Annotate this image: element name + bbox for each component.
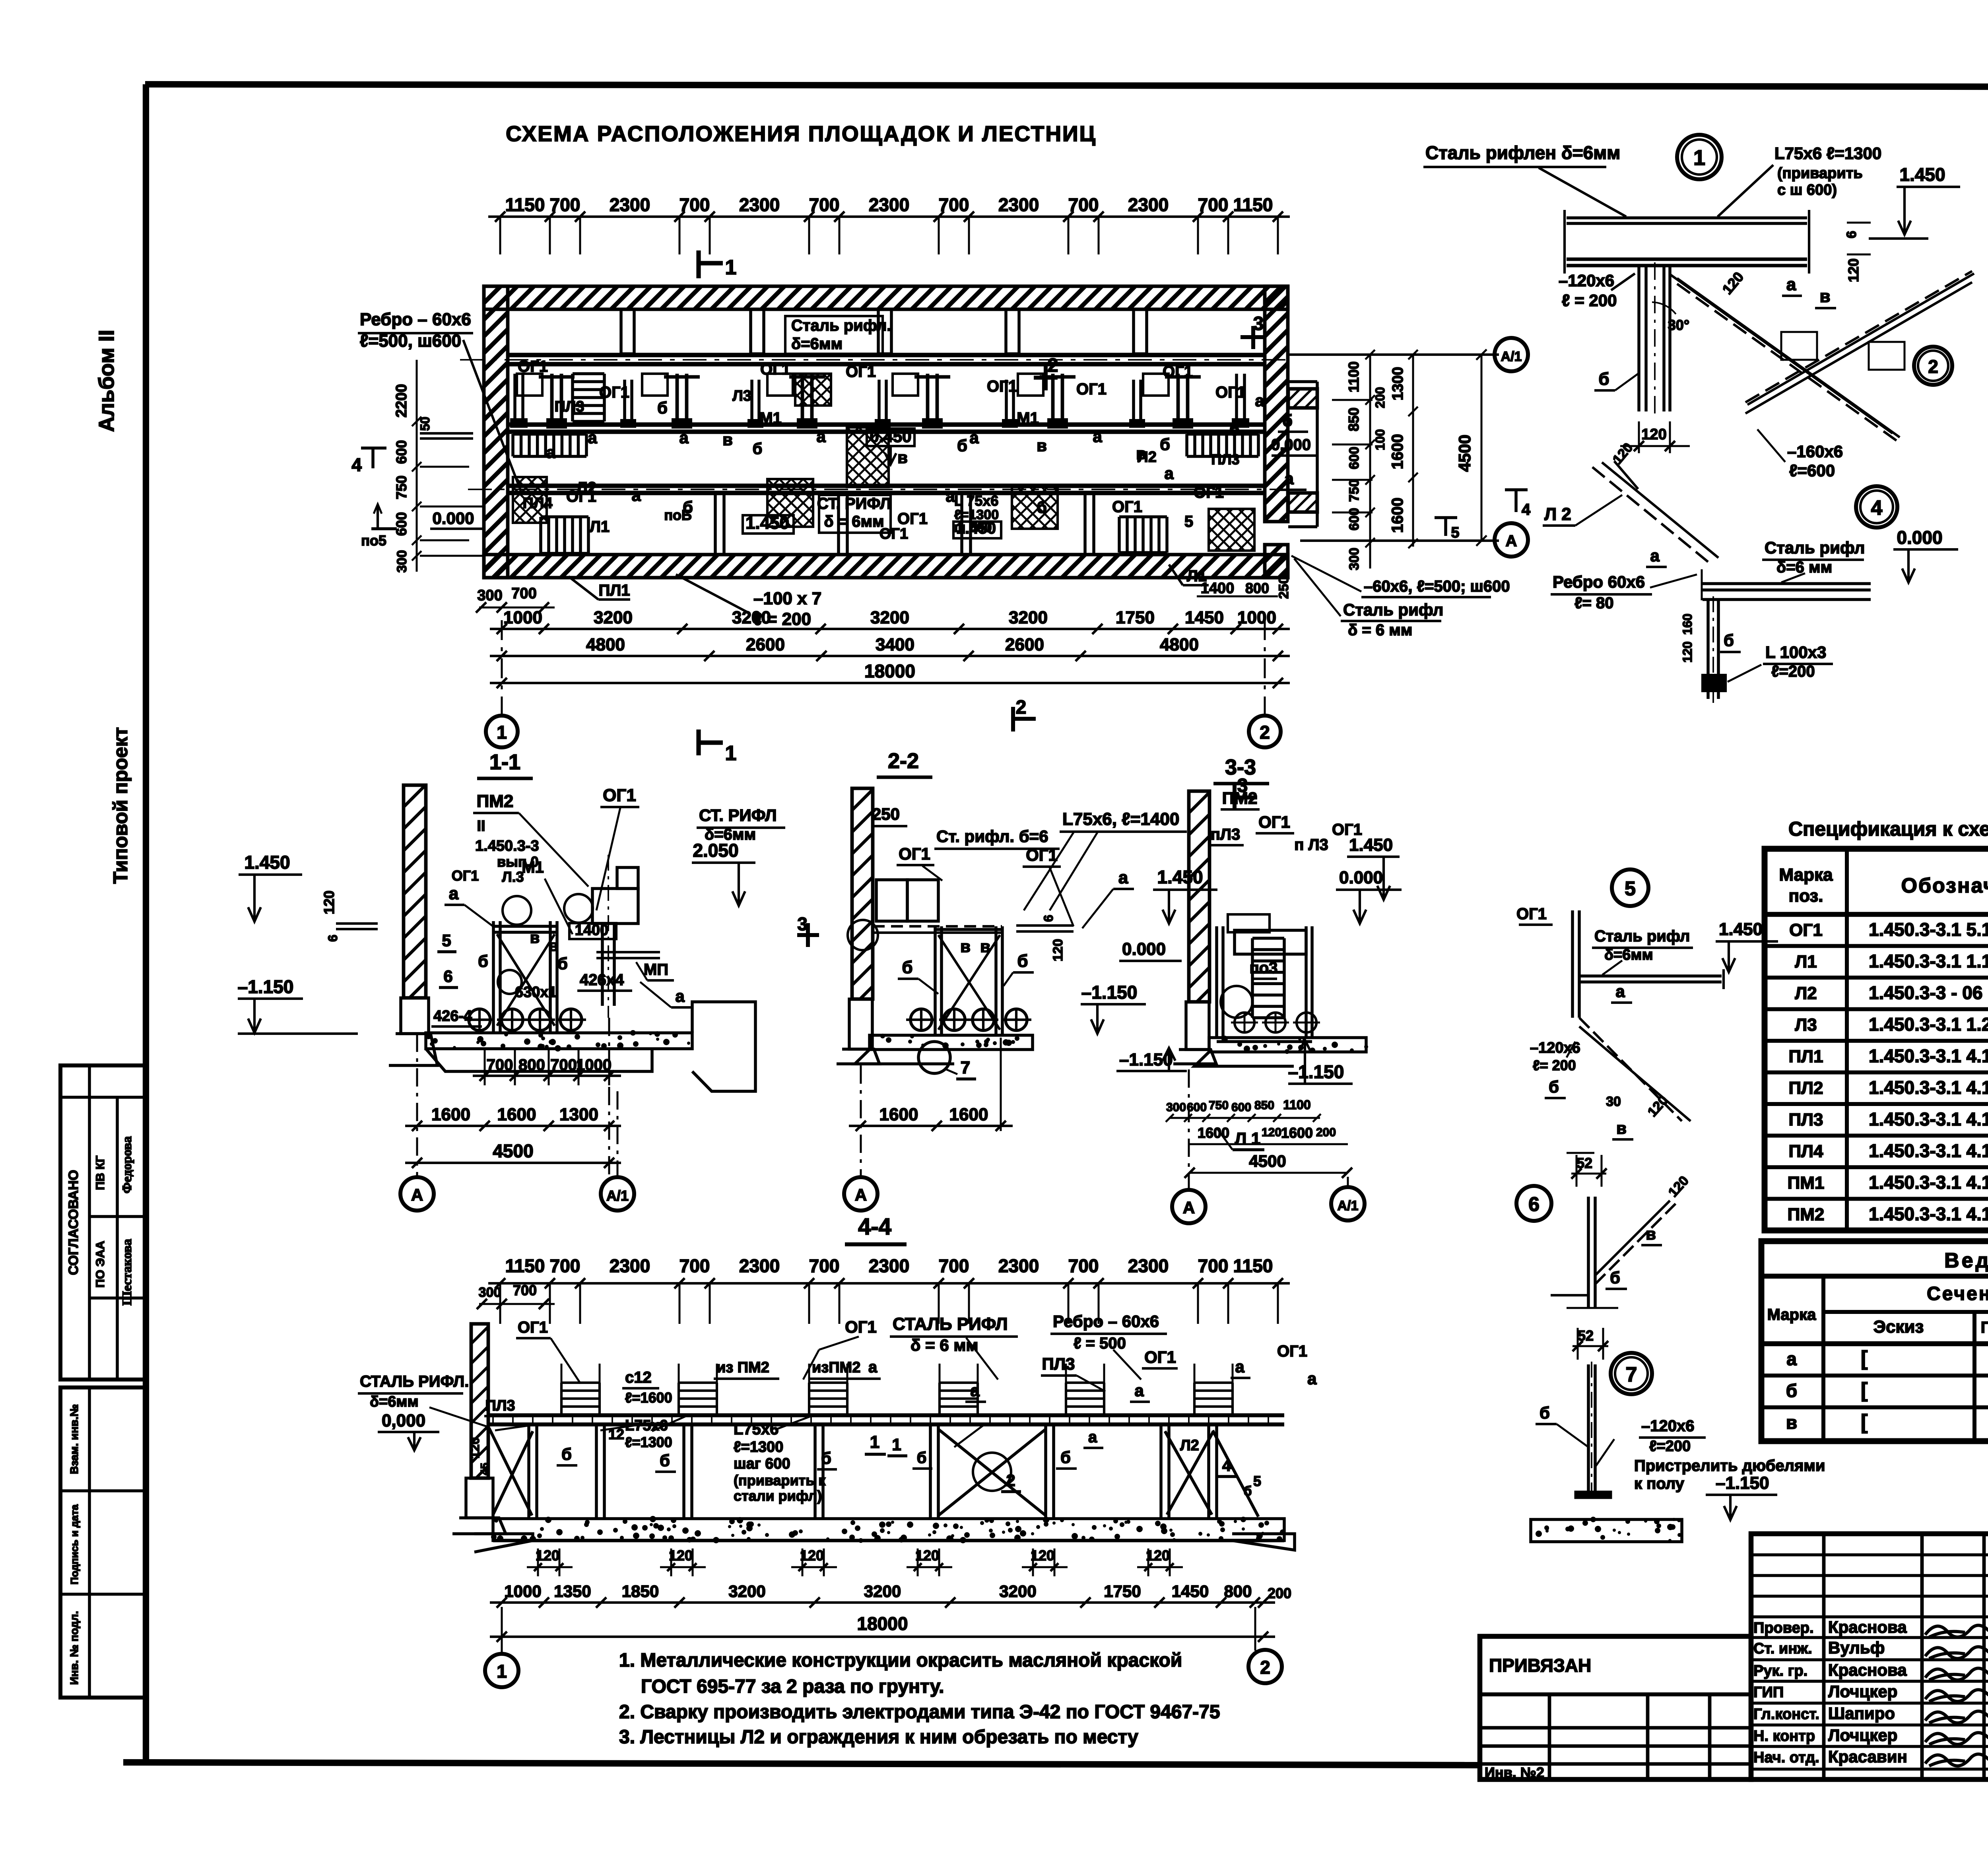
svg-text:2300: 2300 <box>1128 194 1169 215</box>
svg-text:2200: 2200 <box>393 384 410 418</box>
svg-text:630х1: 630х1 <box>515 984 557 1001</box>
svg-text:Инв. № подл.: Инв. № подл. <box>68 1611 80 1685</box>
svg-text:ОГ1: ОГ1 <box>987 378 1017 395</box>
svg-text:300: 300 <box>479 1285 501 1300</box>
svg-text:1.450.3-3.1 4.1.1.1.0 - 01: 1.450.3-3.1 4.1.1.1.0 - 01 <box>1869 1141 1988 1161</box>
svg-text:120: 120 <box>1641 426 1666 443</box>
svg-text:3: 3 <box>797 914 808 934</box>
svg-text:Краснова: Краснова <box>1828 1661 1907 1679</box>
svg-text:700: 700 <box>809 194 840 215</box>
svg-text:в: в <box>1819 287 1830 306</box>
svg-text:1-1: 1-1 <box>489 750 520 774</box>
svg-text:100: 100 <box>1373 429 1387 450</box>
svg-text:3200: 3200 <box>594 608 633 627</box>
svg-text:ℓ=1600: ℓ=1600 <box>625 1389 672 1406</box>
svg-text:Рук. гр.: Рук. гр. <box>1753 1663 1807 1679</box>
svg-text:а: а <box>1284 469 1294 488</box>
svg-text:II: II <box>477 818 485 834</box>
svg-text:Типовой проект: Типовой проект <box>109 727 132 884</box>
svg-text:2-2: 2-2 <box>888 749 919 773</box>
svg-text:а: а <box>945 487 955 505</box>
svg-text:1.450.3-3.1 1.1.1.0.0 -03: 1.450.3-3.1 1.1.1.0.0 -03 <box>1869 951 1988 972</box>
svg-text:800: 800 <box>1224 1582 1252 1601</box>
svg-text:4500: 4500 <box>1455 435 1474 471</box>
svg-text:Ребро – 60х6: Ребро – 60х6 <box>360 310 471 329</box>
svg-text:2.050: 2.050 <box>693 840 738 861</box>
svg-text:ℓ=500, ш600: ℓ=500, ш600 <box>360 331 461 351</box>
svg-text:1.450.3-3.1 4.1.1.1.0: 1.450.3-3.1 4.1.1.1.0 <box>1869 1046 1988 1066</box>
svg-text:200: 200 <box>1373 387 1387 408</box>
svg-text:б: б <box>821 1449 831 1467</box>
svg-text:СТ. РИФЛ: СТ. РИФЛ <box>699 806 777 825</box>
svg-text:в: в <box>980 937 990 956</box>
svg-text:б: б <box>753 440 763 458</box>
svg-text:0,000: 0,000 <box>382 1411 425 1430</box>
svg-text:СОГЛАСОВАНО: СОГЛАСОВАНО <box>66 1170 81 1275</box>
svg-text:5: 5 <box>1253 1473 1261 1489</box>
svg-text:1.450: 1.450 <box>1349 835 1393 855</box>
svg-text:МП: МП <box>644 961 668 978</box>
svg-text:120: 120 <box>321 891 337 914</box>
svg-text:2: 2 <box>1260 722 1270 743</box>
svg-text:Спецификация к схеме распол: Спецификация к схеме расположения площад… <box>1788 818 1988 840</box>
svg-text:250: 250 <box>1276 576 1291 599</box>
svg-text:–120х6: –120х6 <box>1559 271 1614 290</box>
svg-text:ПМ2: ПМ2 <box>1222 789 1258 807</box>
svg-text:изПМ2: изПМ2 <box>812 1359 860 1376</box>
svg-text:0.000: 0.000 <box>1897 527 1942 548</box>
svg-text:Сечение: Сечение <box>1927 1283 1988 1304</box>
svg-text:СТАЛЬ РИФЛ.: СТАЛЬ РИФЛ. <box>360 1373 469 1390</box>
svg-text:160: 160 <box>1680 613 1695 634</box>
svg-text:700: 700 <box>550 1255 580 1276</box>
svg-text:4-4: 4-4 <box>858 1214 891 1240</box>
svg-text:L 100х3: L 100х3 <box>1765 643 1826 662</box>
svg-text:[: [ <box>1861 1411 1868 1434</box>
svg-text:700: 700 <box>1068 194 1099 215</box>
svg-text:L75х6, ℓ=1400: L75х6, ℓ=1400 <box>1062 809 1179 829</box>
svg-text:0.000: 0.000 <box>1339 868 1383 887</box>
svg-text:1100: 1100 <box>1283 1098 1310 1112</box>
svg-text:750: 750 <box>1209 1099 1229 1112</box>
svg-text:ОГ1: ОГ1 <box>1026 846 1058 864</box>
svg-text:2300: 2300 <box>739 1255 780 1276</box>
svg-text:120: 120 <box>915 1547 939 1564</box>
svg-text:ОГ1: ОГ1 <box>846 363 876 380</box>
svg-text:в: в <box>897 448 908 467</box>
svg-text:Шестакова: Шестакова <box>120 1239 134 1306</box>
svg-text:М1: М1 <box>522 859 544 876</box>
svg-text:ОГ1: ОГ1 <box>1215 384 1246 401</box>
svg-text:а: а <box>1088 1428 1097 1446</box>
svg-text:3200: 3200 <box>732 608 771 627</box>
svg-text:3. Лестницы Л2 и ограждения: 3. Лестницы Л2 и ограждения к ним обреза… <box>619 1727 1138 1748</box>
svg-text:600: 600 <box>393 512 410 536</box>
svg-text:Сталь рифл: Сталь рифл <box>1343 600 1443 619</box>
svg-text:426-4: 426-4 <box>433 1008 472 1024</box>
svg-text:7: 7 <box>1626 1363 1637 1386</box>
svg-text:А: А <box>1183 1198 1195 1217</box>
svg-text:ℓ= 200: ℓ= 200 <box>1533 1057 1576 1073</box>
svg-text:а: а <box>1093 427 1102 446</box>
svg-text:Л2: Л2 <box>1138 449 1157 466</box>
svg-text:6: 6 <box>1528 1193 1540 1215</box>
svg-text:6: 6 <box>1844 231 1859 239</box>
svg-text:а: а <box>588 428 597 447</box>
svg-text:1600: 1600 <box>879 1105 918 1124</box>
svg-text:2: 2 <box>1928 356 1938 377</box>
svg-text:ПЛ1: ПЛ1 <box>1789 1047 1823 1066</box>
svg-text:1.450.3-3: 1.450.3-3 <box>475 838 539 854</box>
svg-text:1350: 1350 <box>554 1582 591 1601</box>
svg-text:300: 300 <box>394 550 410 573</box>
svg-text:1000: 1000 <box>503 608 542 627</box>
svg-text:ОГ1: ОГ1 <box>899 844 930 863</box>
svg-text:1600: 1600 <box>1281 1125 1313 1141</box>
svg-text:ПРИВЯЗАН: ПРИВЯЗАН <box>1489 1655 1591 1676</box>
svg-text:Эскиз: Эскиз <box>1873 1317 1924 1337</box>
svg-text:в: в <box>1786 1412 1797 1433</box>
svg-text:Взам. инв.№: Взам. инв.№ <box>68 1404 80 1474</box>
svg-text:а: а <box>1164 464 1174 483</box>
svg-text:1600: 1600 <box>1198 1125 1229 1141</box>
svg-text:δ=6мм: δ=6мм <box>370 1393 419 1410</box>
svg-text:–160х6: –160х6 <box>1787 442 1843 461</box>
svg-text:Лочцкер: Лочцкер <box>1828 1682 1897 1701</box>
svg-text:426х4: 426х4 <box>580 971 624 989</box>
svg-text:ПЛ4: ПЛ4 <box>1789 1142 1823 1161</box>
svg-text:а: а <box>1118 868 1128 887</box>
svg-text:1.450: 1.450 <box>244 852 290 873</box>
svg-text:Подпись и дата: Подпись и дата <box>68 1504 80 1585</box>
svg-text:ОГ1: ОГ1 <box>1163 363 1193 380</box>
svg-text:б: б <box>1243 1484 1252 1499</box>
svg-text:Красавин: Красавин <box>1828 1747 1907 1766</box>
svg-text:1: 1 <box>725 742 737 765</box>
svg-text:ОГ1: ОГ1 <box>1277 1343 1307 1360</box>
svg-text:Л3: Л3 <box>1795 1015 1817 1035</box>
svg-text:1600: 1600 <box>1389 434 1406 470</box>
svg-text:2: 2 <box>1048 355 1058 376</box>
svg-text:1.450: 1.450 <box>1899 164 1945 185</box>
svg-text:1850: 1850 <box>622 1582 659 1601</box>
svg-text:120: 120 <box>1845 258 1862 282</box>
svg-text:в: в <box>1646 1224 1656 1243</box>
svg-text:700: 700 <box>487 1056 513 1074</box>
svg-text:600: 600 <box>1347 508 1362 531</box>
svg-text:б: б <box>1060 1448 1071 1467</box>
svg-text:ПМ2: ПМ2 <box>1788 1205 1825 1224</box>
svg-text:[: [ <box>1861 1379 1868 1402</box>
svg-text:Марка: Марка <box>1779 865 1833 885</box>
svg-text:2: 2 <box>1260 1657 1270 1678</box>
svg-text:(приварить: (приварить <box>1777 165 1863 182</box>
svg-text:1750: 1750 <box>1116 608 1155 627</box>
svg-text:б: б <box>1540 1403 1550 1422</box>
svg-text:а: а <box>816 427 826 446</box>
svg-text:с12: с12 <box>625 1369 652 1386</box>
svg-text:б: б <box>1598 369 1609 389</box>
svg-text:а: а <box>1255 391 1264 410</box>
svg-text:Инв. №2: Инв. №2 <box>1485 1764 1544 1781</box>
svg-text:1: 1 <box>725 256 737 279</box>
svg-text:М1: М1 <box>759 409 782 427</box>
svg-text:1: 1 <box>497 722 507 743</box>
svg-text:2300: 2300 <box>739 194 780 215</box>
svg-text:ОГ1: ОГ1 <box>603 786 636 805</box>
svg-text:ПВ КГ: ПВ КГ <box>94 1156 107 1190</box>
svg-text:0.000: 0.000 <box>432 509 474 528</box>
svg-text:А: А <box>411 1186 423 1204</box>
svg-text:в: в <box>530 929 540 947</box>
svg-text:ОГ1: ОГ1 <box>452 867 479 884</box>
svg-text:4800: 4800 <box>1160 635 1199 654</box>
svg-text:б: б <box>1017 951 1028 971</box>
svg-text:30: 30 <box>1606 1094 1621 1109</box>
svg-text:1.450.3-3.1 4.1.1.1.0: 1.450.3-3.1 4.1.1.1.0 <box>1869 1077 1988 1098</box>
svg-text:Л 2: Л 2 <box>1544 504 1571 524</box>
svg-text:ℓ = 500: ℓ = 500 <box>1074 1335 1126 1352</box>
svg-text:б: б <box>1610 1268 1620 1287</box>
svg-text:Л2: Л2 <box>1180 1437 1199 1454</box>
svg-text:ОГ1: ОГ1 <box>845 1317 877 1336</box>
svg-text:4: 4 <box>351 454 362 475</box>
svg-text:Л1: Л1 <box>1795 952 1817 972</box>
svg-text:2300: 2300 <box>610 194 650 215</box>
svg-text:ГИП: ГИП <box>1753 1684 1784 1701</box>
svg-text:ОГ1: ОГ1 <box>518 358 548 375</box>
svg-text:7: 7 <box>961 1058 970 1077</box>
svg-text:700: 700 <box>1068 1255 1099 1276</box>
svg-text:ОГ1: ОГ1 <box>1194 484 1224 501</box>
svg-text:300: 300 <box>477 587 502 604</box>
svg-text:б: б <box>657 398 668 417</box>
svg-text:ОГ1: ОГ1 <box>897 510 928 528</box>
svg-text:700: 700 <box>679 1255 710 1276</box>
svg-text:5: 5 <box>442 931 451 950</box>
svg-text:4800: 4800 <box>586 635 625 654</box>
svg-text:а: а <box>1307 1369 1317 1388</box>
svg-text:М1: М1 <box>1017 409 1039 427</box>
svg-text:5: 5 <box>1451 524 1459 541</box>
svg-text:3200: 3200 <box>728 1582 765 1601</box>
svg-text:700: 700 <box>939 194 969 215</box>
svg-text:по5: по5 <box>361 532 386 549</box>
svg-text:5: 5 <box>1184 513 1193 530</box>
svg-text:Поз: Поз <box>1981 1319 1988 1336</box>
svg-text:L75х6 ℓ=1300: L75х6 ℓ=1300 <box>1774 144 1881 163</box>
svg-text:б: б <box>1160 435 1170 454</box>
svg-text:Сталь рифлен δ=6мм: Сталь рифлен δ=6мм <box>1425 142 1620 163</box>
svg-text:Вульф: Вульф <box>1828 1638 1885 1657</box>
svg-text:а: а <box>546 443 555 462</box>
svg-text:700: 700 <box>809 1255 840 1276</box>
svg-text:ℓ=200: ℓ=200 <box>1649 1438 1691 1455</box>
svg-text:–100 х 7: –100 х 7 <box>753 589 821 608</box>
svg-text:а: а <box>868 1358 878 1376</box>
svg-text:ГОСТ 695-77 за 2 раза по: ГОСТ 695-77 за 2 раза по грунту. <box>641 1676 944 1697</box>
svg-text:А: А <box>1506 532 1517 550</box>
svg-text:δ = 6мм: δ = 6мм <box>824 513 884 530</box>
svg-text:800: 800 <box>1245 580 1269 596</box>
svg-text:Л3: Л3 <box>732 388 751 404</box>
svg-text:–120х6: –120х6 <box>1641 1417 1694 1435</box>
svg-text:б: б <box>917 1449 927 1467</box>
svg-text:а: а <box>1235 1357 1244 1376</box>
svg-text:1150: 1150 <box>505 1255 545 1276</box>
svg-text:а: а <box>449 884 459 903</box>
svg-text:3200: 3200 <box>870 608 909 627</box>
svg-text:12: 12 <box>608 1426 624 1442</box>
svg-text:А: А <box>855 1186 867 1204</box>
svg-text:б: б <box>1282 411 1293 430</box>
svg-text:700: 700 <box>1198 1255 1229 1276</box>
svg-text:ОГ1: ОГ1 <box>1112 498 1142 516</box>
svg-text:1450: 1450 <box>1185 608 1224 627</box>
svg-text:–1.150: –1.150 <box>1288 1061 1344 1082</box>
svg-text:δ = 6 мм: δ = 6 мм <box>1348 621 1412 639</box>
svg-text:по3: по3 <box>1250 959 1278 977</box>
svg-text:1750: 1750 <box>1104 1582 1141 1601</box>
svg-text:Пристрелить дюбелями: Пристрелить дюбелями <box>1634 1457 1825 1475</box>
svg-text:3200: 3200 <box>864 1582 901 1601</box>
svg-text:18000: 18000 <box>864 661 915 681</box>
svg-text:ПЛ3: ПЛ3 <box>554 398 584 415</box>
svg-text:ℓ=200: ℓ=200 <box>1771 663 1815 680</box>
svg-text:1.450.3-3.1 1.2.1.0.0: 1.450.3-3.1 1.2.1.0.0 <box>1869 1014 1988 1035</box>
svg-text:Провер.: Провер. <box>1753 1620 1814 1636</box>
svg-text:поз.: поз. <box>1789 886 1823 906</box>
svg-text:ПЛ4: ПЛ4 <box>522 495 552 512</box>
svg-text:ПЛ3: ПЛ3 <box>1211 451 1239 468</box>
svg-text:1: 1 <box>892 1435 901 1454</box>
svg-text:3200: 3200 <box>1009 608 1048 627</box>
svg-text:СТАЛЬ РИФЛ: СТАЛЬ РИФЛ <box>893 1314 1008 1334</box>
svg-text:1450: 1450 <box>1172 1582 1209 1601</box>
svg-text:1.450.3-3.1 4.1.2.1.0 - 09: 1.450.3-3.1 4.1.2.1.0 - 09 <box>1869 1204 1988 1224</box>
svg-text:б: б <box>660 1451 670 1470</box>
svg-text:4500: 4500 <box>1249 1152 1286 1170</box>
svg-text:а: а <box>1650 546 1660 565</box>
svg-text:1150: 1150 <box>505 194 545 215</box>
svg-text:ПО ЭАА: ПО ЭАА <box>94 1241 107 1288</box>
svg-text:700: 700 <box>679 194 710 215</box>
svg-text:Нач. отд.: Нач. отд. <box>1753 1749 1819 1766</box>
svg-text:ℓ=600: ℓ=600 <box>1789 461 1835 480</box>
svg-text:1150: 1150 <box>1233 194 1273 215</box>
svg-text:а: а <box>1134 1381 1144 1400</box>
svg-text:3200: 3200 <box>999 1582 1036 1601</box>
svg-text:б: б <box>957 436 967 455</box>
svg-text:1100: 1100 <box>1345 361 1362 392</box>
svg-text:из ПМ2: из ПМ2 <box>716 1359 769 1376</box>
svg-text:ПМ1: ПМ1 <box>1788 1173 1825 1193</box>
svg-text:ℓ=1300: ℓ=1300 <box>734 1439 783 1455</box>
svg-text:δ=6мм: δ=6мм <box>791 335 843 353</box>
svg-text:Л2: Л2 <box>577 479 596 497</box>
svg-text:шаг 600: шаг 600 <box>734 1455 790 1472</box>
svg-text:120: 120 <box>1680 641 1695 662</box>
svg-text:120: 120 <box>800 1547 824 1564</box>
svg-text:б: б <box>478 952 488 970</box>
svg-text:δ=6мм: δ=6мм <box>1604 947 1653 963</box>
svg-text:а: а <box>631 486 641 504</box>
svg-text:1.450.3-3.1 4.1.1.1.0 - 01: 1.450.3-3.1 4.1.1.1.0 - 01 <box>1869 1109 1988 1129</box>
svg-text:А/1: А/1 <box>1501 349 1522 364</box>
svg-text:Шапиро: Шапиро <box>1828 1704 1895 1723</box>
svg-text:L75х6: L75х6 <box>625 1417 668 1434</box>
svg-text:600: 600 <box>1347 447 1362 470</box>
svg-text:–1.150: –1.150 <box>1081 982 1138 1003</box>
svg-text:а: а <box>1786 275 1796 294</box>
svg-text:Федорова: Федорова <box>120 1136 134 1193</box>
svg-text:ОГ1: ОГ1 <box>518 1319 548 1336</box>
svg-text:1600: 1600 <box>497 1105 536 1124</box>
svg-text:ПМ2: ПМ2 <box>477 792 514 811</box>
svg-text:50: 50 <box>418 417 432 431</box>
svg-text:700: 700 <box>511 585 536 602</box>
svg-text:30°: 30° <box>1668 317 1689 333</box>
svg-text:[: [ <box>1861 1347 1868 1370</box>
svg-text:2. Сварку производить элект: 2. Сварку производить электродами типа Э… <box>619 1702 1220 1723</box>
svg-text:Н. контр: Н. контр <box>1753 1728 1815 1744</box>
svg-text:Сталь рифл: Сталь рифл <box>1765 538 1865 557</box>
svg-text:Ведомость: Ведомость <box>1944 1249 1988 1272</box>
svg-text:600: 600 <box>393 440 410 464</box>
svg-text:18000: 18000 <box>857 1613 908 1634</box>
svg-text:300: 300 <box>1347 548 1362 570</box>
svg-text:1. Металлические конструкции: 1. Металлические конструкции окрасить ма… <box>619 1650 1182 1671</box>
svg-text:1: 1 <box>1693 146 1705 170</box>
svg-text:1: 1 <box>497 1661 507 1682</box>
svg-text:1.450: 1.450 <box>1719 920 1763 939</box>
svg-text:А/1: А/1 <box>1338 1198 1359 1213</box>
svg-text:2300: 2300 <box>869 1255 909 1276</box>
svg-text:1600: 1600 <box>1389 498 1406 533</box>
svg-text:52: 52 <box>1578 1327 1594 1344</box>
svg-text:6: 6 <box>326 935 340 942</box>
svg-text:б: б <box>902 958 912 977</box>
svg-text:ОГ1: ОГ1 <box>1516 905 1547 923</box>
svg-text:2300: 2300 <box>998 1255 1039 1276</box>
svg-text:120: 120 <box>1262 1126 1281 1139</box>
svg-text:–1.150: –1.150 <box>238 976 294 997</box>
svg-text:в: в <box>549 937 559 955</box>
svg-text:б: б <box>1549 1077 1559 1096</box>
svg-text:1000: 1000 <box>576 1056 612 1074</box>
svg-text:а: а <box>1615 982 1625 1001</box>
svg-text:поБ: поБ <box>664 507 692 523</box>
svg-text:пЛ3: пЛ3 <box>1211 826 1240 843</box>
svg-text:2300: 2300 <box>998 194 1039 215</box>
svg-text:Гл.конст.: Гл.конст. <box>1753 1706 1819 1723</box>
svg-text:750: 750 <box>1347 479 1362 502</box>
svg-text:1000: 1000 <box>1237 608 1276 627</box>
svg-text:750: 750 <box>393 475 410 499</box>
svg-text:б: б <box>1724 631 1734 650</box>
svg-text:0.000: 0.000 <box>1271 436 1311 454</box>
svg-text:4: 4 <box>1871 497 1883 520</box>
svg-text:800: 800 <box>518 1056 545 1074</box>
svg-text:Л1: Л1 <box>590 518 610 536</box>
svg-text:ℓ = 200: ℓ = 200 <box>1562 291 1617 310</box>
svg-text:700: 700 <box>513 1282 537 1298</box>
svg-text:Марка: Марка <box>1767 1306 1817 1323</box>
svg-text:п Л3: п Л3 <box>1294 836 1328 854</box>
svg-text:б: б <box>557 954 568 973</box>
svg-text:δ = 6 мм: δ = 6 мм <box>911 1336 978 1354</box>
svg-text:в: в <box>960 937 971 956</box>
